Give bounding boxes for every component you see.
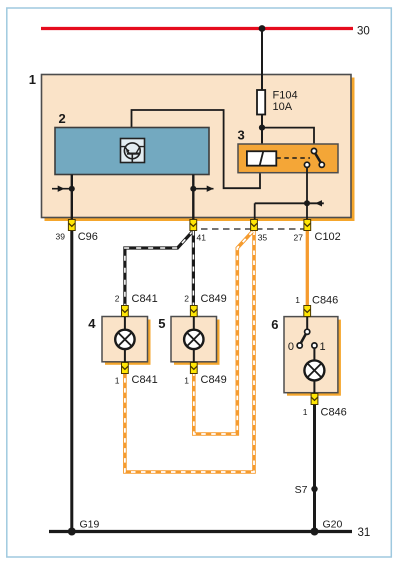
svg-text:2: 2 [115,294,120,304]
svg-text:31: 31 [358,527,371,539]
svg-text:2: 2 [184,294,189,304]
svg-text:41: 41 [197,233,207,243]
svg-text:6: 6 [271,317,278,332]
svg-text:1: 1 [320,341,326,353]
svg-text:35: 35 [258,233,268,243]
svg-text:C846: C846 [312,295,338,307]
svg-text:C849: C849 [201,293,227,305]
svg-text:C849: C849 [201,374,227,386]
svg-text:5: 5 [158,316,165,331]
svg-text:3: 3 [238,128,245,143]
svg-text:C841: C841 [132,374,158,386]
svg-text:1: 1 [29,72,36,87]
svg-text:S7: S7 [295,484,308,496]
svg-text:1: 1 [184,376,189,386]
svg-text:4: 4 [88,316,96,331]
svg-text:F104: F104 [273,90,298,102]
svg-text:G20: G20 [323,519,343,531]
svg-text:39: 39 [56,232,66,242]
svg-text:1: 1 [115,376,120,386]
svg-text:C102: C102 [315,231,341,243]
svg-text:2: 2 [59,111,66,126]
svg-text:C96: C96 [78,231,98,243]
svg-text:27: 27 [294,233,304,243]
svg-text:1: 1 [295,295,300,305]
svg-text:C841: C841 [132,293,158,305]
svg-text:C846: C846 [321,407,347,419]
svg-text:10A: 10A [273,101,293,113]
svg-text:G19: G19 [80,519,100,531]
svg-text:0: 0 [288,341,294,353]
svg-text:1: 1 [303,407,308,417]
svg-text:30: 30 [357,26,370,38]
